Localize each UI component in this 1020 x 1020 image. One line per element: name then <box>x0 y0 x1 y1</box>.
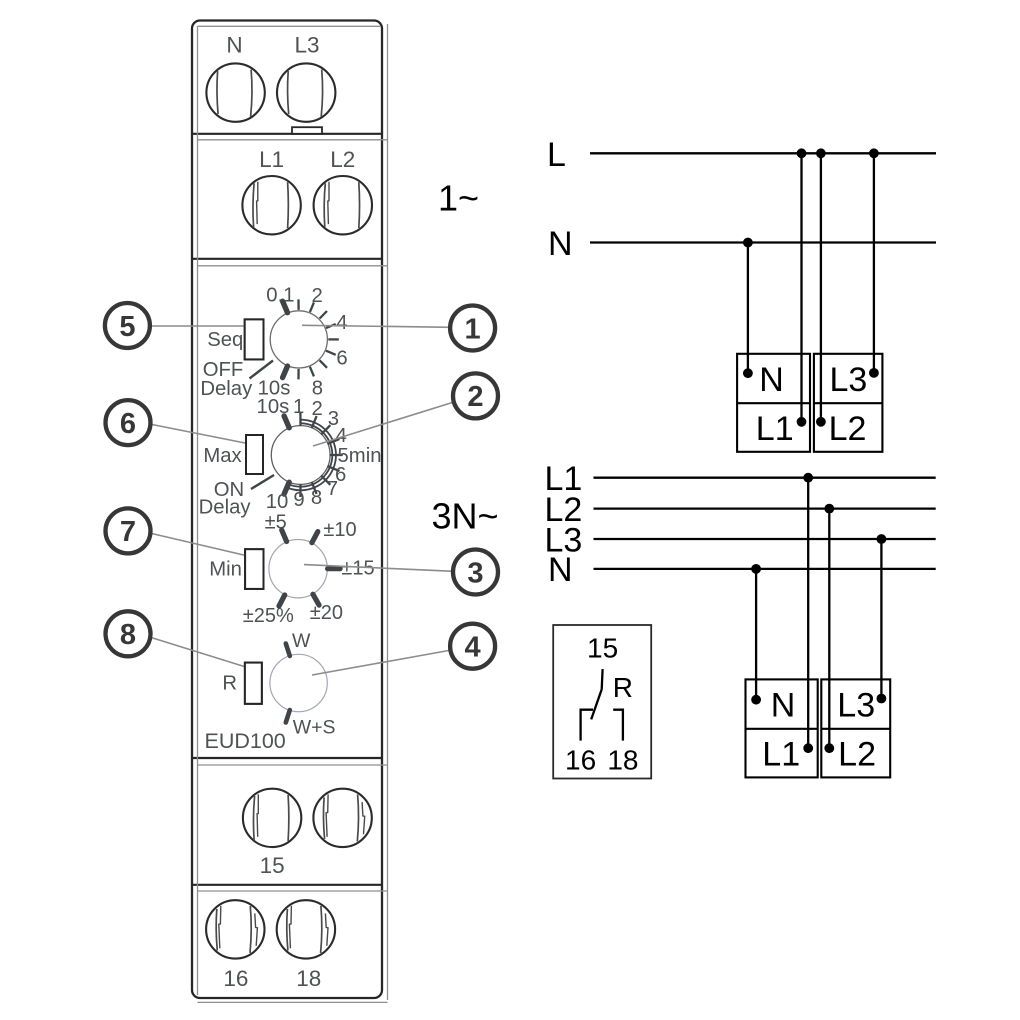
contact symbol box <box>553 625 651 779</box>
callout line 8 <box>150 637 250 668</box>
knob 4 scale labels <box>292 630 336 739</box>
svg-text:18: 18 <box>607 745 638 776</box>
switch window overdraw 3 <box>245 549 263 589</box>
terminal box 3N~ divider <box>746 728 891 730</box>
callout circle 1 <box>450 306 495 351</box>
svg-text:3N~: 3N~ <box>432 496 499 537</box>
switch window overdraw 2 <box>246 435 263 474</box>
svg-text:3: 3 <box>467 557 483 589</box>
contact 18 bracket <box>613 710 623 741</box>
callout line 4 <box>312 650 452 675</box>
knob 2 scale labels <box>257 396 382 513</box>
svg-text:N: N <box>759 361 784 399</box>
svg-text:L2: L2 <box>330 147 355 172</box>
box 3N~ cell labels <box>762 686 876 773</box>
terminal box 3N~ right half <box>821 679 890 777</box>
terminal screw L1 <box>242 176 300 234</box>
svg-text:R: R <box>613 672 633 703</box>
drop wire L2 (3N~) <box>828 509 830 749</box>
svg-text:7: 7 <box>120 516 136 548</box>
svg-text:L2: L2 <box>838 735 876 773</box>
switch window overdraw 4 <box>245 663 262 704</box>
svg-text:±5: ±5 <box>265 512 287 534</box>
terminal screw 15b <box>313 789 371 847</box>
svg-text:10s: 10s <box>257 396 290 418</box>
terminal box 1~ right half <box>814 354 883 452</box>
svg-text:6: 6 <box>120 408 136 440</box>
svg-text:6: 6 <box>336 348 347 370</box>
terminal screw N (top) <box>206 63 264 121</box>
svg-text:16: 16 <box>565 745 596 776</box>
knob 3 scale labels <box>243 512 375 627</box>
wire L2 (3N~) <box>594 507 936 509</box>
svg-text:L1: L1 <box>762 735 800 773</box>
wire N (1~ mains line) <box>590 241 936 243</box>
svg-text:L1: L1 <box>259 147 284 172</box>
svg-text:L1: L1 <box>756 410 794 448</box>
svg-text:4: 4 <box>336 312 347 334</box>
svg-text:W: W <box>292 630 311 652</box>
knob 3 rotary dial (tolerance) <box>269 530 340 606</box>
svg-text:9: 9 <box>293 489 304 511</box>
callout line 1 <box>302 325 452 327</box>
callout circle 6 <box>106 400 151 445</box>
junction dots on L line <box>797 148 879 158</box>
contact 16 bracket <box>581 710 593 741</box>
drop wire L to L3 terminal <box>873 153 875 373</box>
terminal screw L2 <box>314 176 372 234</box>
svg-text:W+S: W+S <box>293 717 336 739</box>
svg-text:15: 15 <box>260 853 285 878</box>
box 1~ cell labels <box>756 361 868 448</box>
svg-text:±10: ±10 <box>323 519 356 541</box>
svg-text:16: 16 <box>223 966 248 991</box>
wire L (1~ mains line) <box>590 152 936 154</box>
knob 1 switch window <box>245 319 264 359</box>
terminal dots box 3N~ <box>751 694 886 754</box>
svg-text:2: 2 <box>312 285 323 307</box>
svg-text:±15: ±15 <box>341 558 374 580</box>
svg-text:L3: L3 <box>294 33 319 58</box>
svg-text:8: 8 <box>312 378 323 400</box>
knob 2 pointer <box>251 475 274 489</box>
knob 2 rotary dial (ON delay) <box>251 413 343 497</box>
drop wire N to terminal <box>747 243 749 374</box>
knob 4 rotary dial (W / W+S) <box>270 644 327 723</box>
svg-text:8: 8 <box>311 487 322 509</box>
callout line 2 <box>313 402 456 447</box>
svg-text:L3: L3 <box>829 361 867 399</box>
svg-text:R: R <box>222 673 237 695</box>
contact stem from 15 <box>601 669 604 689</box>
callout line 5 <box>149 325 252 327</box>
svg-text:N: N <box>548 551 573 589</box>
drop wire N (3N~) <box>755 569 757 700</box>
svg-text:L: L <box>547 136 566 174</box>
svg-text:N: N <box>226 33 242 58</box>
knob 1 rotary dial (OFF delay) <box>250 299 339 379</box>
callout circle 5 <box>105 303 150 348</box>
svg-text:1: 1 <box>465 313 481 345</box>
callout circle 2 <box>453 373 498 418</box>
labels 3N~ lines <box>545 460 583 589</box>
svg-text:Delay: Delay <box>199 497 252 519</box>
knob 4 switch window <box>245 663 262 704</box>
device body outline <box>192 21 382 999</box>
callout circle 4 <box>450 624 495 669</box>
wire N (3N~) <box>594 568 936 570</box>
svg-text:N: N <box>771 686 796 724</box>
svg-text:2: 2 <box>467 381 483 413</box>
callout circle 7 <box>106 508 151 553</box>
svg-text:8: 8 <box>120 619 136 651</box>
svg-text:±20: ±20 <box>310 602 343 624</box>
svg-text:EUD100: EUD100 <box>205 729 286 753</box>
svg-text:Seq: Seq <box>207 329 243 351</box>
svg-text:1: 1 <box>293 396 304 418</box>
callout circle 8 <box>106 611 151 656</box>
label OFF Delay <box>200 359 253 400</box>
housing tab notch <box>292 127 322 134</box>
terminal box 1~ divider <box>737 402 882 404</box>
callout line 6 <box>150 424 251 444</box>
label ON Delay <box>199 479 252 519</box>
svg-text:Max: Max <box>203 445 241 467</box>
drop wire L to L2 terminal <box>820 153 822 422</box>
svg-text:15: 15 <box>587 633 618 664</box>
svg-text:L2: L2 <box>829 410 867 448</box>
svg-text:18: 18 <box>296 966 321 991</box>
svg-text:0.1: 0.1 <box>266 285 294 307</box>
knob 1 pointer <box>250 361 274 379</box>
junction dot on N line <box>743 238 753 248</box>
terminal box 1~ left half <box>737 354 810 452</box>
terminal screw 16 <box>206 900 264 958</box>
svg-text:N: N <box>548 225 573 263</box>
callout line 7 <box>150 533 251 557</box>
device inner edge lines <box>198 24 388 1002</box>
switch window overdraw 1 <box>245 319 264 359</box>
drop wire L1 (3N~) <box>807 478 809 749</box>
svg-text:1~: 1~ <box>438 178 479 219</box>
knob 3 switch window <box>245 549 263 589</box>
svg-text:10: 10 <box>266 491 289 513</box>
knob 1 scale labels <box>258 285 348 400</box>
terminal screw 15a <box>243 789 301 847</box>
drop wire L3 (3N~) <box>880 539 882 699</box>
terminal screw 18 <box>277 900 335 958</box>
svg-text:±25%: ±25% <box>243 605 294 627</box>
svg-text:Min: Min <box>209 559 242 581</box>
svg-text:Delay: Delay <box>200 378 253 400</box>
terminal box 3N~ left half <box>746 679 818 777</box>
svg-text:2: 2 <box>312 398 323 420</box>
terminal dots box 1~ <box>743 368 879 427</box>
svg-text:7: 7 <box>327 478 338 500</box>
svg-text:5: 5 <box>119 311 135 343</box>
svg-text:4: 4 <box>465 632 481 664</box>
knob 2 switch window <box>246 435 263 474</box>
terminal screw L3 (top) <box>277 63 335 121</box>
drop wire L to L1 terminal <box>800 153 802 422</box>
callout line 3 <box>304 565 454 572</box>
svg-text:L3: L3 <box>837 686 875 724</box>
wire L1 (3N~) <box>594 477 936 479</box>
contact blade <box>591 689 602 719</box>
wire L3 (3N~) <box>594 538 936 540</box>
callout circle 3 <box>453 550 498 595</box>
junction dots 3N~ lines <box>751 473 886 574</box>
